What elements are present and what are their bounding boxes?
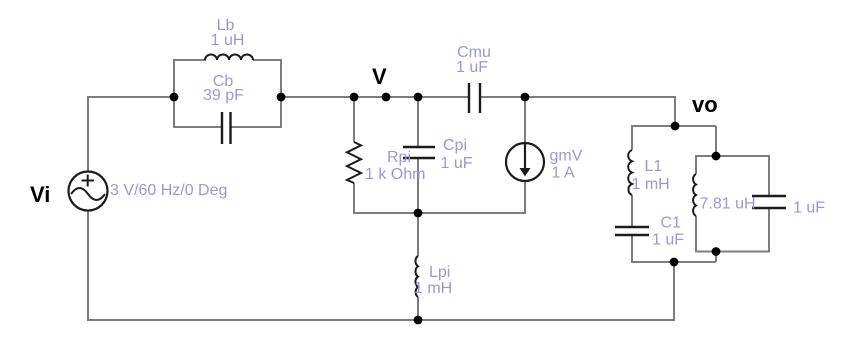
wire: resistor Rpi bottom lead — [353, 183, 355, 214]
svg-text:vo: vo — [692, 92, 718, 117]
wire: top rail from block to Cmu left plate — [281, 96, 469, 98]
svg-text:1 uF: 1 uF — [456, 59, 488, 76]
inductor 7.81 uH coil — [693, 174, 696, 216]
junction dot: tank bottom — [712, 247, 721, 256]
inductor L1 (1 mH) coil — [628, 150, 632, 195]
wire: tank bottom edge — [695, 251, 770, 253]
capacitor C1 (1 uF) plates — [615, 227, 649, 235]
wire: top rail from Cmu right plate to vo corner — [480, 96, 675, 98]
wire: Cpi top lead — [417, 97, 419, 147]
wire: L1 to C1 connecting lead — [631, 195, 633, 227]
wire: vo vertical drop from top rail — [674, 96, 676, 126]
wire: Cpi bottom lead — [417, 158, 419, 213]
wire: tank top stub from vo rail — [715, 126, 717, 156]
wire: gmV top lead — [524, 97, 526, 143]
junction dot: block left terminal — [170, 93, 179, 102]
junction dot: Cmu right / gmV top — [521, 93, 530, 102]
junction dot: L1/C1 bottom junction — [670, 258, 679, 267]
wire: vo horizontal rail — [632, 125, 716, 127]
junction dot: block right terminal — [277, 93, 286, 102]
svg-text:1 uF: 1 uF — [652, 232, 684, 249]
capacitor Cpi (1 uF) plates — [403, 147, 435, 158]
svg-text:3 V/60 Hz/0 Deg: 3 V/60 Hz/0 Deg — [110, 182, 227, 199]
inductor Lpi (1 mH) coil — [415, 256, 418, 297]
svg-text:Lpi: Lpi — [429, 264, 450, 281]
wire: main bottom rail — [87, 319, 675, 321]
wire: right vertical drop to bottom rail — [673, 262, 675, 321]
wire: pi-network bottom rail — [353, 212, 526, 214]
svg-text:Cpi: Cpi — [443, 137, 467, 154]
junction dot: node vo — [671, 122, 680, 131]
voltage source Vi circle — [69, 172, 108, 211]
wire: L1 top lead — [631, 125, 633, 150]
wire: Lpi top lead — [417, 213, 419, 256]
inductor Lb (1 uH) coil — [205, 55, 253, 61]
resistor Rpi (1 k Ohm) zigzag — [347, 142, 361, 183]
svg-text:1 A: 1 A — [552, 165, 575, 182]
wire: block top edge right segment — [253, 59, 282, 61]
svg-text:V: V — [372, 64, 387, 89]
wire: resistor Rpi top lead — [353, 97, 355, 142]
capacitor Cb (39 pF) plates — [222, 112, 231, 144]
voltage source Vi sine wave — [71, 188, 105, 200]
svg-text:39 pF: 39 pF — [203, 87, 244, 104]
junction dot: node V middle — [382, 93, 391, 102]
capacitor Cmu (1 uF) plates — [469, 83, 480, 113]
svg-text:Vi: Vi — [30, 182, 50, 207]
svg-text:1 k Ohm: 1 k Ohm — [365, 166, 425, 183]
wire: block bottom edge left segment — [173, 126, 222, 128]
wire: block top edge left segment — [173, 59, 206, 61]
wire: gmV bottom lead — [524, 180, 526, 213]
wire: Lb/Cb block left edge — [173, 59, 175, 128]
wire: tank top edge — [695, 155, 770, 157]
capacitor 1 uF (right tank) plates — [752, 196, 786, 208]
current source gmV arrow — [524, 144, 526, 171]
junction dot: Lpi top junction — [414, 209, 423, 218]
svg-text:1 uF: 1 uF — [793, 200, 825, 217]
svg-text:Rpi: Rpi — [387, 149, 411, 166]
junction dot: tank top — [712, 152, 721, 161]
wire: tank left edge upper — [695, 155, 697, 174]
junction dot: Cpi top / Cmu left — [414, 93, 423, 102]
wire: tank right edge lower — [768, 208, 770, 253]
wire: tank bottom stub — [715, 252, 717, 263]
wire: Lb/Cb block right edge — [280, 59, 282, 128]
svg-text:gmV: gmV — [550, 148, 583, 165]
wire: block bottom edge right segment — [231, 126, 283, 128]
current source gmV circle — [506, 143, 544, 181]
voltage source Vi plus sign — [82, 175, 95, 187]
wire: tank left edge lower — [695, 216, 697, 253]
wire: top-left horizontal (Vi to Lb/Cb block) — [87, 96, 174, 98]
svg-text:1 uF: 1 uF — [441, 155, 473, 172]
wire: Vi source bottom to bottom rail — [87, 210, 89, 321]
svg-text:1 mH: 1 mH — [414, 280, 452, 297]
junction dot: Lpi bottom on main rail — [414, 316, 423, 325]
wire: L1/C1 bottom rail to junction — [631, 261, 716, 263]
wire: C1 bottom lead — [631, 235, 633, 263]
svg-text:1 uH: 1 uH — [211, 32, 245, 49]
junction dot: node V left (resistor top) — [350, 93, 359, 102]
svg-text:7.81 uH: 7.81 uH — [700, 196, 756, 213]
wire: left vertical from top rail to Vi source top — [87, 96, 89, 171]
svg-text:1 mH: 1 mH — [632, 176, 670, 193]
svg-text:C1: C1 — [661, 215, 682, 232]
wire: tank right edge upper — [768, 155, 770, 196]
wire: Lpi bottom lead — [417, 297, 419, 321]
svg-text:L1: L1 — [645, 158, 663, 175]
